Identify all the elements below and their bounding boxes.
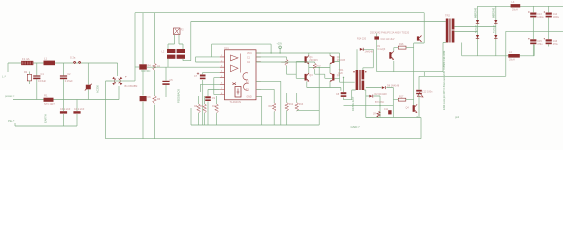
svg-text:20uH: 20uH [512,8,518,11]
diode D3 [476,20,479,23]
wire pin1-2 loop [196,57,220,62]
wire H1 right drop [414,13,425,43]
svg-text:470u: 470u [537,44,543,46]
svg-text:310VDC: 310VDC [141,70,151,73]
wire out top [478,5,563,7]
wire varistor branch [87,63,89,100]
resistor R10 [215,104,219,113]
wire R16 row [394,43,414,48]
fuse F1 hatch [24,61,32,65]
resistor R13 [295,103,299,112]
thermal switch F2 [174,28,181,35]
IC1 inner labels [246,53,252,98]
transistor Q2 [330,55,335,64]
resistor R19 [313,63,316,69]
transformer TR2 core [450,19,451,43]
wire q3 down [393,61,395,72]
svg-text:C14: C14 [553,13,558,16]
svg-text:PE↗: PE↗ [8,119,15,123]
wire pin3 [193,66,220,68]
choke winding bottom-right [177,55,185,59]
capacitor C3 [60,111,67,113]
wire d2 row [366,95,380,97]
node VCC [279,46,282,49]
capacitor C12 plate2 [416,93,422,94]
svg-text:GND: GND [247,96,252,98]
wire D8 row [366,88,394,100]
wire q2 collector [329,53,331,55]
diode D6 [140,96,147,101]
svg-text:C15: C15 [537,40,542,43]
diode B1b [119,77,123,81]
choke winding top-right [177,49,185,53]
wire H2 rail [183,22,446,61]
TR1 phase dots [353,71,354,72]
wire R9 top [204,96,206,104]
svg-text:0.15uF: 0.15uF [38,79,46,83]
wire vcc drop [279,49,281,53]
wire startup chain2 [154,13,156,139]
svg-text:D2 1N4148: D2 1N4148 [375,93,388,96]
svg-text:gnd: gnd [455,116,460,119]
resistor R18 [285,60,288,66]
wire subrail gnd [191,108,319,125]
transformer TR1 primary [356,70,359,90]
wire IC top loop [212,44,272,57]
junction dot1 [343,77,344,78]
choke winding bottom-left [167,55,175,59]
wire R8 bottom [198,113,200,125]
svg-text:S 2a: S 2a [70,56,76,60]
svg-text:Q3: Q3 [309,74,313,77]
diode D2 [369,95,372,98]
resistor R15 [377,111,380,117]
wire cap1 v [532,6,534,56]
wire N-line [13,86,119,100]
wire R19 path [256,62,325,74]
dtc mark IC1 [237,89,240,95]
capacitor C7 plate1 [200,75,206,77]
choke winding top-left [167,49,175,53]
wire R2 stubs [28,72,30,85]
svg-text:IC1: IC1 [225,46,230,50]
svg-text:C16: C16 [553,40,558,43]
wire out rail2 [506,31,563,76]
fuse F1 [22,61,34,65]
junction dot2 [379,105,380,106]
wire C1 branch [36,63,38,100]
wire bridge top [117,63,119,76]
junction vcc [279,52,280,53]
capacitor C9 plate1 [205,96,211,98]
resistor R8 [197,104,201,113]
wire R12 bottom [286,110,288,125]
wire R10 bottom [216,113,218,125]
wire C10 drop [376,34,378,72]
wire q4 em [416,116,418,118]
transformer TR1 sec2 [362,81,365,90]
capacitor C2 plate1 [60,75,67,76]
svg-text:L1: L1 [44,57,48,61]
wire R10 top [216,96,218,104]
svg-text:470u: 470u [553,44,559,46]
wire PE rail [15,123,77,126]
resistor R5 [153,63,157,70]
transistor Q4 [413,104,418,113]
svg-text:C13: C13 [537,13,542,16]
transistor Q3b [305,73,310,82]
wire v393 [392,100,394,118]
wire R8 top [198,96,200,104]
resistor R9 [203,104,207,113]
wire R13 link [297,109,320,111]
wire out lower [462,55,535,57]
wire TR1 pri bottom [344,90,356,100]
resistor R11 [272,103,276,112]
svg-text:F12C20: F12C20 [494,24,496,33]
wire L-pin stub [7,63,9,72]
wire pin4 C7 [203,72,220,125]
wire pin6 [201,84,220,92]
wire mid row [344,105,394,107]
capacitor C16 [546,39,552,41]
svg-text:1000u: 1000u [537,17,544,19]
svg-text:20uH: 20uH [509,58,515,61]
svg-text:C3 2.2nF: C3 2.2nF [60,108,71,111]
wire fb sense [419,72,506,118]
pins IC1 left [220,57,225,95]
svg-text:C10 1nF 2kV: C10 1nF 2kV [381,38,395,41]
capacitor C8 plate2 [341,95,347,97]
thermal switch F2 mark [174,29,179,34]
resistor R17 [398,98,406,101]
junction midpoint [319,67,320,68]
wire q2-q4 link [329,64,331,73]
svg-text:MBR2545: MBR2545 [494,7,496,18]
transformer TR2 sec1 [452,19,455,30]
svg-text:EARTH: EARTH [44,114,48,123]
wire midpoint drop [318,68,320,126]
varistor R3 slash [85,84,92,91]
wire TR2 bot right [461,43,463,56]
svg-text:F12C20: F12C20 [475,24,477,33]
transistor Q5 legs [419,36,421,42]
capacitor C5 plate2 [162,83,169,85]
svg-text:R10: R10 [212,106,217,108]
transistor Q3 [389,51,394,60]
ref diode IC1 [232,83,236,85]
wire R11 bottom [273,112,275,125]
svg-text:R12: R12 [289,104,294,106]
resistor R2 [27,74,31,81]
capacitor C1 plate2 [33,78,40,80]
diode D5 [476,35,479,38]
svg-text:2SC4242 PHILIPS 2A 400V TO220: 2SC4242 PHILIPS 2A 400V TO220 [370,32,410,35]
wire R17 row [393,99,413,101]
transistor Q1 [305,55,310,64]
capacitor C5 plate1 [162,81,169,82]
wire C4 branch [76,100,78,127]
capacitor C2 plate2 [60,78,67,80]
svg-text:FEEDBACK: FEEDBACK [177,89,181,103]
resistor R4 [139,64,147,69]
comparator 1 IC1 [231,55,239,61]
IC1 internal bus [239,54,241,73]
svg-text:GND↗: GND↗ [351,125,361,129]
svg-text:R14 220: R14 220 [357,38,367,41]
wire choke bottom right [182,59,184,61]
inductor L3 [511,4,521,7]
capacitor C1 plate1 [33,75,40,76]
wire midpoint [309,67,330,69]
wire TR2 bot left [443,43,446,72]
wire q2 base chain [334,53,354,82]
svg-text:C4 2.2nF: C4 2.2nF [74,108,85,111]
net flag fb [418,93,424,98]
wire rect chain1 [477,6,479,56]
wire rect chain2 [495,6,497,56]
transformer TR2 sec2 [452,31,455,43]
capacitor C11 [388,110,391,114]
wire bridge dc- [106,81,113,139]
wire bridge dc+ [123,80,135,82]
diode B1c [112,81,116,85]
transformer TR2 primary [446,19,449,43]
svg-text:B1 KBU8M: B1 KBU8M [125,84,138,88]
wire pin r4 fb [256,81,281,125]
wire startup chain1 [142,13,144,139]
svg-text:C1: C1 [41,72,45,76]
wire R13 top [296,93,298,103]
diode B1d [119,81,123,85]
wire v413 [413,48,415,106]
wire C8 branch [343,78,345,100]
comparator 2 IC1 [231,65,239,72]
wire R9 bottom [204,113,206,125]
svg-text:TL494CN: TL494CN [230,100,242,104]
wire choke bottom left [167,59,169,67]
svg-text:F1 4A: F1 4A [22,57,30,61]
svg-text:1000u: 1000u [553,17,560,19]
wire subrail2 [366,118,421,139]
capacitor C13 [530,13,536,15]
wire q3 emitter down [306,82,308,88]
svg-text:R17: R17 [399,95,404,98]
junction loop [270,52,271,53]
wire R12 top [286,93,288,103]
diode D4 [494,20,497,23]
svg-text:C12 100n: C12 100n [422,91,433,94]
diode D1 [360,48,363,51]
wire C5 branch [147,67,193,97]
resistor R6 [153,96,157,104]
wire C8 row [307,88,341,91]
svg-text:+25V: +25V [277,42,283,45]
diode D7 [494,35,497,38]
svg-text:+: + [125,75,127,79]
wire C2 branch [63,63,65,126]
svg-text:TR2: TR2 [445,14,450,18]
svg-text:L↗: L↗ [2,75,7,79]
diode B1a [112,77,116,81]
wire bridge cross [112,80,123,82]
capacitor C8 plate1 [341,92,347,94]
wire q3 up [393,48,395,51]
svg-text:R16: R16 [399,43,404,46]
wire cap rows link [533,44,535,56]
svg-text:R1: R1 [44,94,48,98]
wire snubber [357,49,373,70]
transistor Q4b [330,73,335,82]
transistor arc 1 IC1 [243,73,248,80]
capacitor C12 plate1 [416,90,422,92]
svg-text:Q1: Q1 [309,56,313,59]
inductor L1 [44,61,56,66]
dtc box IC1 [235,87,241,98]
pins IC1 right [256,53,261,96]
transistor Q5 [417,36,419,40]
svg-text:power↗: power↗ [5,94,15,98]
capacitor C15 [530,39,536,41]
wire vcc rail [256,52,340,54]
resistor R16 [398,46,406,49]
capacitor C10 [374,36,379,39]
C7 plus [197,72,199,74]
wire pin8 [214,94,220,96]
svg-text:NTC 4R7: NTC 4R7 [44,102,55,106]
wire q4 emitter down [329,82,331,88]
varistor R3 [86,85,91,90]
svg-text:1N4148: 1N4148 [365,51,374,54]
svg-text:AC230: AC230 [96,85,100,93]
svg-text:MBR2545: MBR2545 [475,7,477,18]
wire gnd rail [106,138,422,140]
wire F2 pins [168,35,183,50]
pin numbers IC1 left [221,55,223,95]
wire y71 rail [377,71,443,73]
wire cap2 v [548,6,550,46]
capacitor C7 plate2 [200,78,206,80]
capacitor C14 [546,13,552,15]
switch S1 [73,61,76,64]
wire q1-q3 link [308,64,310,73]
resistor R12 [285,103,289,112]
svg-text:1R: 1R [373,114,376,116]
transformer TR1 core [359,70,360,90]
svg-text:E20: E20 [339,72,344,75]
wire v380 [379,96,381,118]
wire H1 dc+ bus [135,13,424,81]
svg-text:C2: C2 [67,72,71,76]
capacitor C4 [73,111,80,113]
svg-text:R13: R13 [299,104,304,106]
wire pin7 C9 [208,90,220,126]
svg-text:0.15uF: 0.15uF [65,79,73,83]
wire R4 stub [135,66,139,68]
wire q4 base stub [325,74,332,78]
inductor L4 [508,54,520,58]
wire q1 collector [308,53,310,55]
wire TR1 sec out [364,90,366,118]
wire pin r6 gnd [256,96,262,125]
transformer TR1 sec1 [362,70,365,79]
diode D8 [382,86,385,89]
wire pin r5 R11 [256,89,274,103]
capacitor C9 plate2 [205,99,211,101]
wire L-line [8,62,118,64]
svg-text:D8 1N4148: D8 1N4148 [387,85,400,88]
wire pin5 [214,78,220,95]
thermistor R1 NTC [44,98,54,102]
wire R18 path [256,57,305,78]
svg-text:VCC: VCC [247,53,252,55]
transistor arc 2 IC1 [244,83,249,90]
wire TR2 sec taps [454,27,495,32]
op-amp U1 IC1 TL494 body [225,50,257,100]
